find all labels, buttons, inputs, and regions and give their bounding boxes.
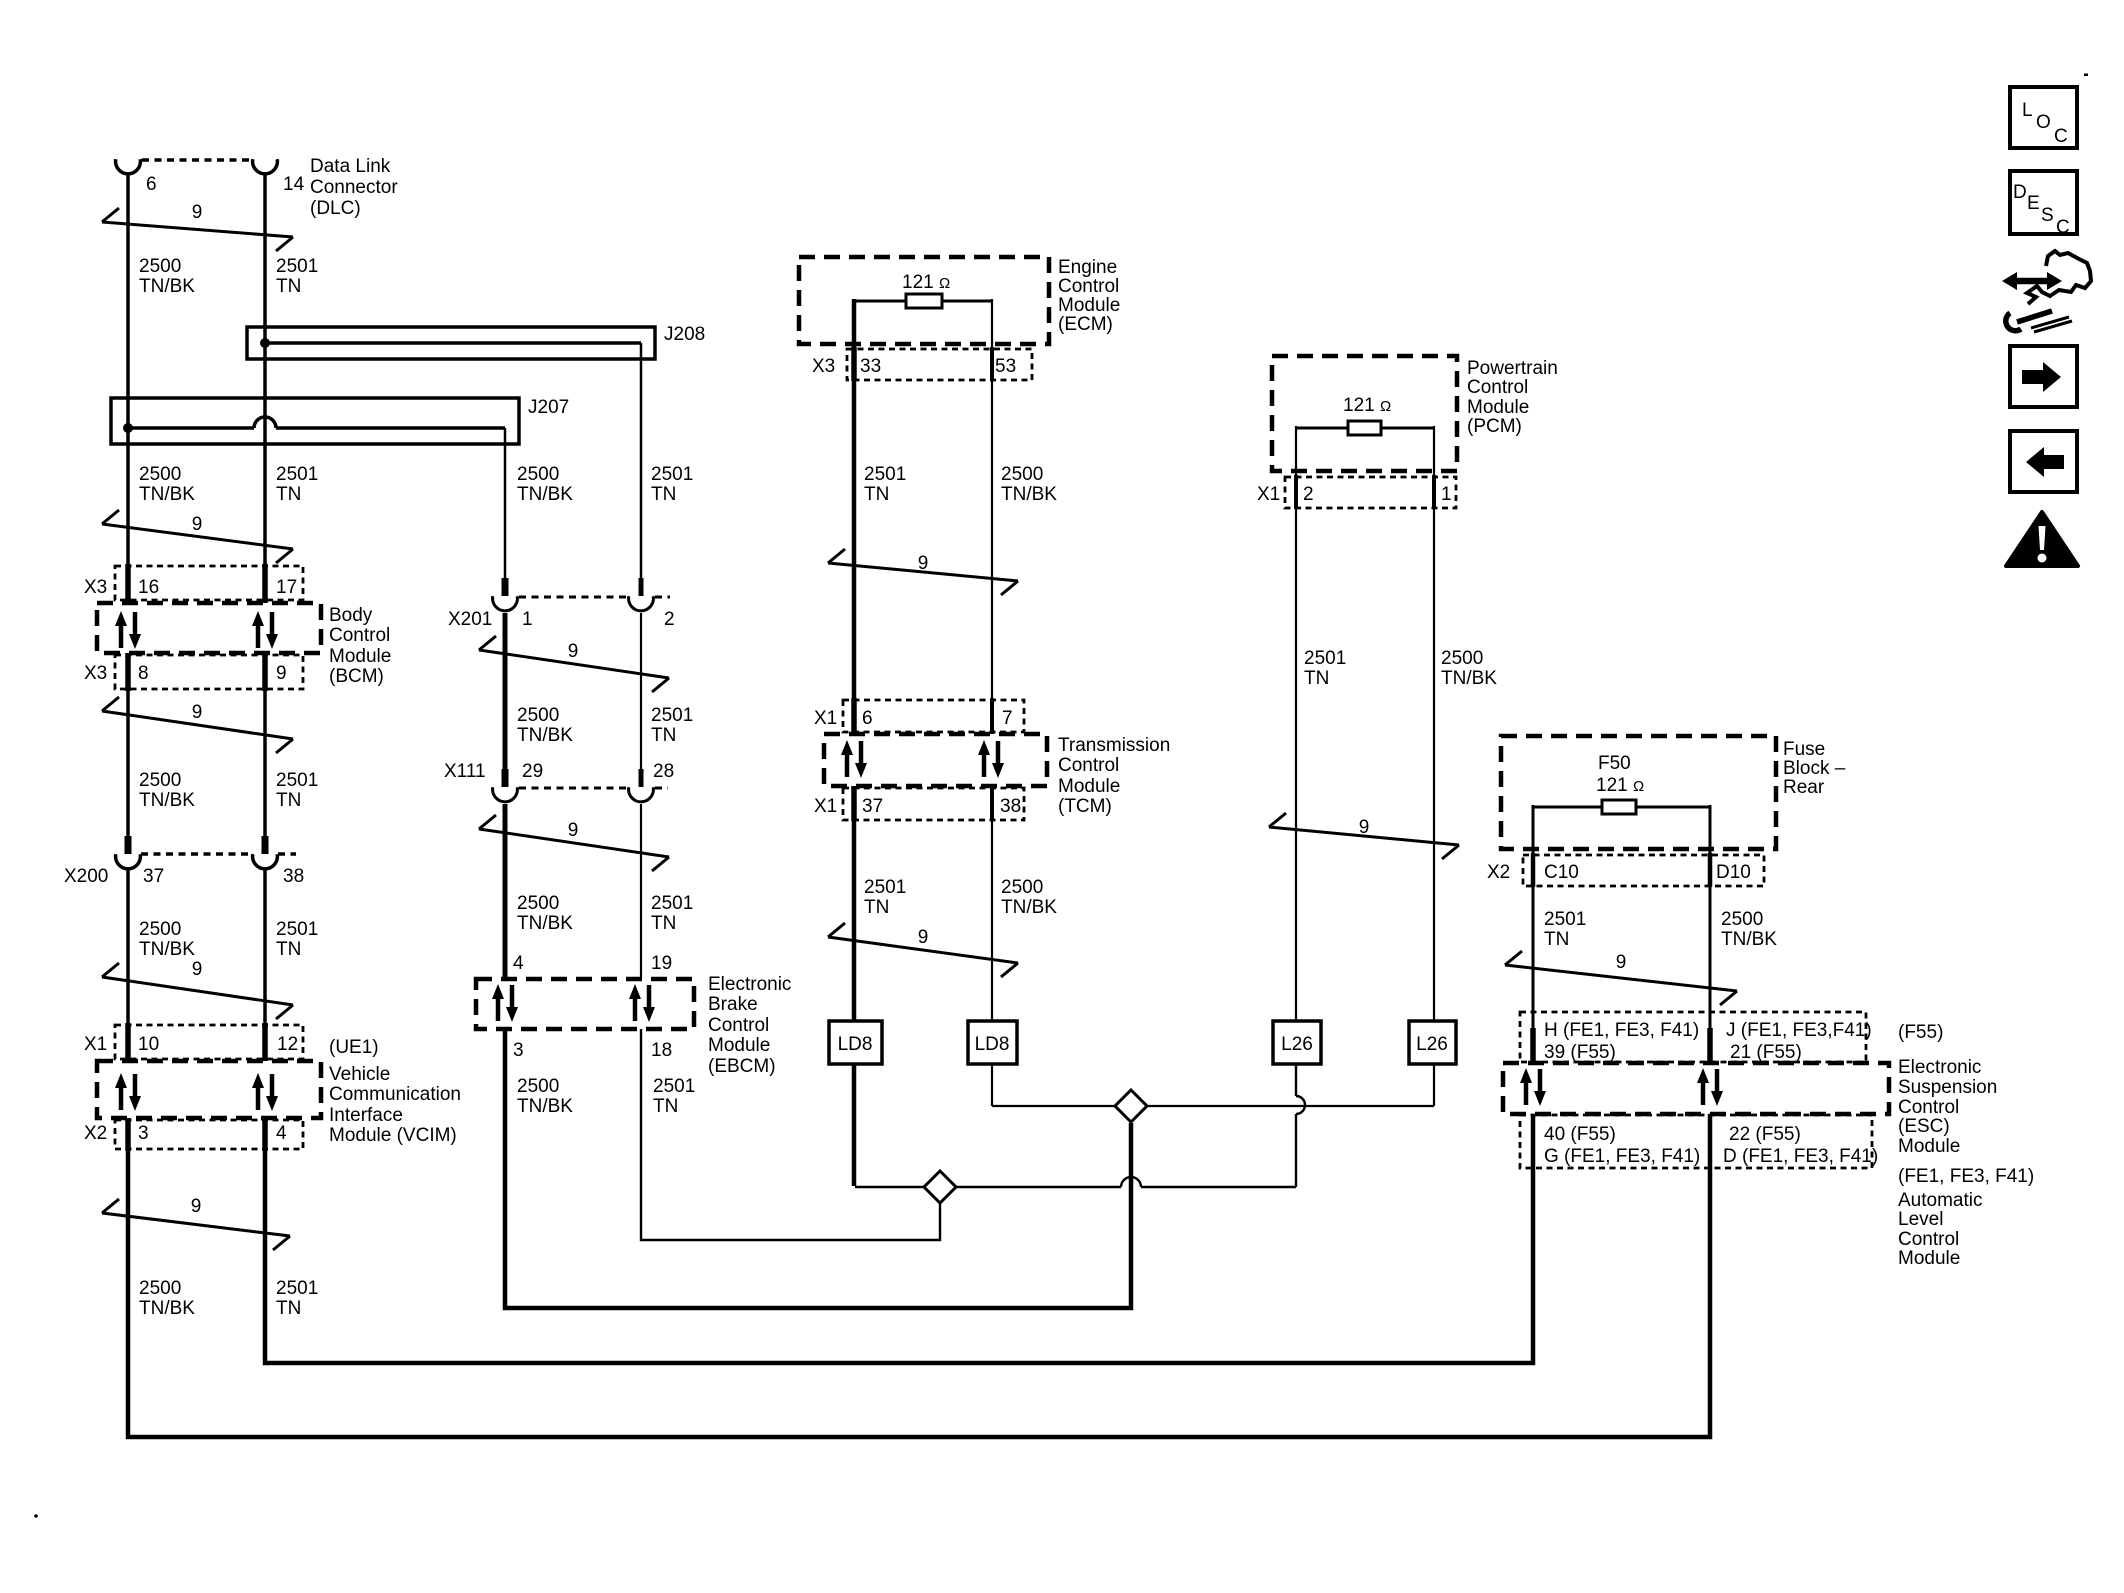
- svg-text:8: 8: [138, 663, 149, 684]
- svg-text:22 (F55): 22 (F55): [1729, 1124, 1801, 1145]
- svg-text:(PCM): (PCM): [1467, 416, 1522, 437]
- svg-text:Module: Module: [1898, 1136, 1960, 1157]
- svg-text:TN: TN: [1304, 668, 1329, 689]
- svg-text:TN: TN: [864, 484, 889, 505]
- svg-text:TN: TN: [1544, 929, 1569, 950]
- svg-text:TN/BK: TN/BK: [1001, 897, 1057, 918]
- svg-text:(ESC): (ESC): [1898, 1116, 1950, 1137]
- svg-text:2501: 2501: [276, 1278, 318, 1299]
- svg-text:2500: 2500: [1001, 464, 1043, 485]
- svg-text:L: L: [2022, 100, 2033, 121]
- svg-text:2500: 2500: [1001, 877, 1043, 898]
- svg-text:19: 19: [651, 953, 672, 974]
- svg-text:40 (F55): 40 (F55): [1544, 1124, 1616, 1145]
- svg-text:121 Ω: 121 Ω: [1596, 775, 1644, 796]
- svg-text:12: 12: [277, 1034, 298, 1055]
- svg-text:2500: 2500: [139, 464, 181, 485]
- svg-text:TN: TN: [653, 1096, 678, 1117]
- svg-text:X200: X200: [64, 866, 108, 887]
- svg-text:X3: X3: [84, 663, 107, 684]
- svg-text:2501: 2501: [651, 464, 693, 485]
- svg-text:2500: 2500: [517, 1076, 559, 1097]
- svg-text:Automatic: Automatic: [1898, 1190, 1982, 1211]
- svg-text:9: 9: [1359, 817, 1370, 838]
- svg-text:Communication: Communication: [329, 1084, 461, 1105]
- svg-text:X1: X1: [814, 796, 837, 817]
- svg-text:37: 37: [143, 866, 164, 887]
- svg-text:2501: 2501: [276, 256, 318, 277]
- svg-text:Control: Control: [1467, 377, 1528, 398]
- svg-text:Electronic: Electronic: [708, 974, 791, 995]
- svg-text:F50: F50: [1598, 753, 1631, 774]
- svg-text:6: 6: [862, 708, 873, 729]
- svg-text:(EBCM): (EBCM): [708, 1056, 776, 1077]
- svg-text:L26: L26: [1416, 1034, 1448, 1055]
- svg-text:TN: TN: [651, 484, 676, 505]
- svg-text:9: 9: [192, 702, 203, 723]
- svg-text:C: C: [2054, 126, 2068, 147]
- svg-text:X3: X3: [84, 577, 107, 598]
- svg-text:(ECM): (ECM): [1058, 314, 1113, 335]
- svg-text:Rear: Rear: [1783, 777, 1825, 798]
- svg-text:2500: 2500: [517, 705, 559, 726]
- svg-text:Module: Module: [1058, 295, 1120, 316]
- svg-text:TN/BK: TN/BK: [139, 1298, 195, 1319]
- svg-text:O: O: [2036, 112, 2051, 133]
- svg-text:Data Link: Data Link: [310, 156, 391, 177]
- svg-text:Electronic: Electronic: [1898, 1057, 1981, 1078]
- svg-text:Control: Control: [1058, 755, 1119, 776]
- svg-text:LD8: LD8: [975, 1034, 1010, 1055]
- svg-text:9: 9: [192, 202, 203, 223]
- svg-text:2501: 2501: [276, 770, 318, 791]
- svg-text:E: E: [2027, 193, 2040, 214]
- svg-text:Module (VCIM): Module (VCIM): [329, 1125, 457, 1146]
- svg-text:TN/BK: TN/BK: [517, 913, 573, 934]
- svg-text:4: 4: [513, 953, 524, 974]
- svg-text:9: 9: [192, 959, 203, 980]
- svg-text:Fuse: Fuse: [1783, 739, 1825, 760]
- svg-text:TN: TN: [276, 1298, 301, 1319]
- svg-text:TN/BK: TN/BK: [1721, 929, 1777, 950]
- svg-text:TN/BK: TN/BK: [517, 484, 573, 505]
- svg-text:X1: X1: [84, 1034, 107, 1055]
- svg-text:TN/BK: TN/BK: [517, 1096, 573, 1117]
- svg-text:2501: 2501: [864, 464, 906, 485]
- svg-text:Control: Control: [329, 625, 390, 646]
- svg-text:9: 9: [1616, 952, 1627, 973]
- svg-text:H (FE1, FE3, F41): H (FE1, FE3, F41): [1544, 1020, 1699, 1041]
- svg-text:2501: 2501: [1544, 909, 1586, 930]
- svg-text:6: 6: [146, 174, 157, 195]
- svg-text:1: 1: [1441, 484, 1452, 505]
- svg-text:TN: TN: [651, 913, 676, 934]
- svg-text:Block –: Block –: [1783, 758, 1846, 779]
- svg-text:121 Ω: 121 Ω: [902, 272, 950, 293]
- svg-text:9: 9: [276, 663, 287, 684]
- svg-text:9: 9: [191, 1196, 202, 1217]
- svg-text:3: 3: [138, 1123, 149, 1144]
- svg-text:Control: Control: [1898, 1097, 1959, 1118]
- svg-text:TN: TN: [276, 276, 301, 297]
- svg-text:2500: 2500: [139, 1278, 181, 1299]
- svg-text:TN: TN: [651, 725, 676, 746]
- svg-text:Module: Module: [1898, 1248, 1960, 1269]
- svg-text:TN: TN: [276, 484, 301, 505]
- svg-text:39 (F55): 39 (F55): [1544, 1042, 1616, 1063]
- svg-text:21 (F55): 21 (F55): [1730, 1042, 1802, 1063]
- svg-text:10: 10: [138, 1034, 159, 1055]
- svg-text:2501: 2501: [276, 464, 318, 485]
- svg-text:(DLC): (DLC): [310, 198, 361, 219]
- svg-text:2: 2: [664, 609, 675, 630]
- svg-text:2500: 2500: [139, 770, 181, 791]
- svg-text:Module: Module: [708, 1035, 770, 1056]
- svg-text:Control: Control: [708, 1015, 769, 1036]
- svg-text:2500: 2500: [517, 893, 559, 914]
- svg-text:Module: Module: [1467, 397, 1529, 418]
- svg-text:38: 38: [283, 866, 304, 887]
- svg-text:18: 18: [651, 1040, 672, 1061]
- svg-text:9: 9: [568, 820, 579, 841]
- svg-text:Transmission: Transmission: [1058, 735, 1170, 756]
- svg-text:2501: 2501: [1304, 648, 1346, 669]
- svg-text:Level: Level: [1898, 1209, 1943, 1230]
- svg-text:Interface: Interface: [329, 1105, 403, 1126]
- svg-text:D10: D10: [1716, 862, 1751, 883]
- svg-text:Engine: Engine: [1058, 257, 1117, 278]
- svg-text:X2: X2: [84, 1123, 107, 1144]
- svg-text:TN/BK: TN/BK: [139, 790, 195, 811]
- svg-text:29: 29: [522, 761, 543, 782]
- svg-text:G (FE1, FE3, F41): G (FE1, FE3, F41): [1544, 1146, 1700, 1167]
- svg-text:Control: Control: [1058, 276, 1119, 297]
- svg-text:TN: TN: [276, 939, 301, 960]
- svg-text:X3: X3: [812, 356, 835, 377]
- svg-text:D: D: [2013, 182, 2027, 203]
- svg-text:TN/BK: TN/BK: [1441, 668, 1497, 689]
- svg-text:TN/BK: TN/BK: [517, 725, 573, 746]
- svg-text:16: 16: [138, 577, 159, 598]
- svg-text:(FE1, FE3, F41): (FE1, FE3, F41): [1898, 1166, 2034, 1187]
- svg-text:2501: 2501: [653, 1076, 695, 1097]
- svg-text:C: C: [2056, 217, 2070, 238]
- svg-text:X1: X1: [1257, 484, 1280, 505]
- svg-text:1: 1: [522, 609, 533, 630]
- svg-text:X111: X111: [444, 761, 486, 782]
- svg-text:Module: Module: [329, 646, 391, 667]
- svg-text:TN: TN: [864, 897, 889, 918]
- svg-text:X1: X1: [814, 708, 837, 729]
- svg-text:2500: 2500: [1441, 648, 1483, 669]
- svg-text:2500: 2500: [517, 464, 559, 485]
- svg-text:C10: C10: [1544, 862, 1579, 883]
- svg-text:TN/BK: TN/BK: [139, 939, 195, 960]
- svg-text:J207: J207: [528, 397, 569, 418]
- svg-text:TN: TN: [276, 790, 301, 811]
- svg-text:Vehicle: Vehicle: [329, 1064, 390, 1085]
- svg-text:2: 2: [1303, 484, 1314, 505]
- svg-text:Connector: Connector: [310, 177, 398, 198]
- svg-text:121 Ω: 121 Ω: [1343, 395, 1391, 416]
- svg-text:9: 9: [918, 927, 929, 948]
- svg-text:D (FE1, FE3, F41): D (FE1, FE3, F41): [1723, 1146, 1878, 1167]
- svg-text:14: 14: [283, 174, 305, 195]
- svg-text:38: 38: [1000, 796, 1021, 817]
- svg-text:Brake: Brake: [708, 994, 758, 1015]
- svg-text:Suspension: Suspension: [1898, 1077, 1997, 1098]
- svg-text:2500: 2500: [139, 256, 181, 277]
- svg-text:Body: Body: [329, 605, 373, 626]
- svg-text:2501: 2501: [651, 705, 693, 726]
- svg-text:53: 53: [995, 356, 1016, 377]
- svg-text:(F55): (F55): [1898, 1022, 1943, 1043]
- svg-text:X201: X201: [448, 609, 492, 630]
- svg-text:X2: X2: [1487, 862, 1510, 883]
- svg-text:(UE1): (UE1): [329, 1037, 379, 1058]
- svg-text:TN/BK: TN/BK: [139, 484, 195, 505]
- svg-text:Module: Module: [1058, 776, 1120, 797]
- svg-text:TN/BK: TN/BK: [1001, 484, 1057, 505]
- svg-text:2501: 2501: [276, 919, 318, 940]
- svg-text:33: 33: [860, 356, 881, 377]
- svg-text:J (FE1, FE3,F41): J (FE1, FE3,F41): [1726, 1020, 1872, 1041]
- svg-text:2501: 2501: [864, 877, 906, 898]
- svg-text:3: 3: [513, 1040, 524, 1061]
- svg-text:LD8: LD8: [838, 1034, 873, 1055]
- svg-text:9: 9: [918, 553, 929, 574]
- svg-text:Powertrain: Powertrain: [1467, 358, 1558, 379]
- svg-text:17: 17: [276, 577, 297, 598]
- svg-text:2500: 2500: [139, 919, 181, 940]
- svg-text:2501: 2501: [651, 893, 693, 914]
- svg-text:9: 9: [192, 514, 203, 535]
- svg-text:(TCM): (TCM): [1058, 796, 1112, 817]
- svg-text:J208: J208: [664, 324, 705, 345]
- svg-text:TN/BK: TN/BK: [139, 276, 195, 297]
- svg-text:2500: 2500: [1721, 909, 1763, 930]
- svg-text:28: 28: [653, 761, 674, 782]
- svg-text:Control: Control: [1898, 1229, 1959, 1250]
- svg-text:4: 4: [276, 1123, 287, 1144]
- svg-text:9: 9: [568, 641, 579, 662]
- svg-text:S: S: [2041, 205, 2054, 226]
- svg-text:L26: L26: [1281, 1034, 1313, 1055]
- svg-text:(BCM): (BCM): [329, 666, 384, 687]
- svg-text:37: 37: [862, 796, 883, 817]
- svg-text:7: 7: [1002, 708, 1013, 729]
